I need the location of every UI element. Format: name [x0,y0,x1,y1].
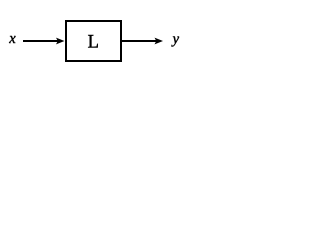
svg-text:x: x [8,31,16,47]
output arrowhead [155,38,164,45]
block U1 box [66,21,121,61]
input wire [23,40,60,42]
svg-text:y: y [171,31,180,47]
svg-text:L: L [88,32,99,52]
output wire [122,40,158,42]
input arrowhead [56,38,65,45]
